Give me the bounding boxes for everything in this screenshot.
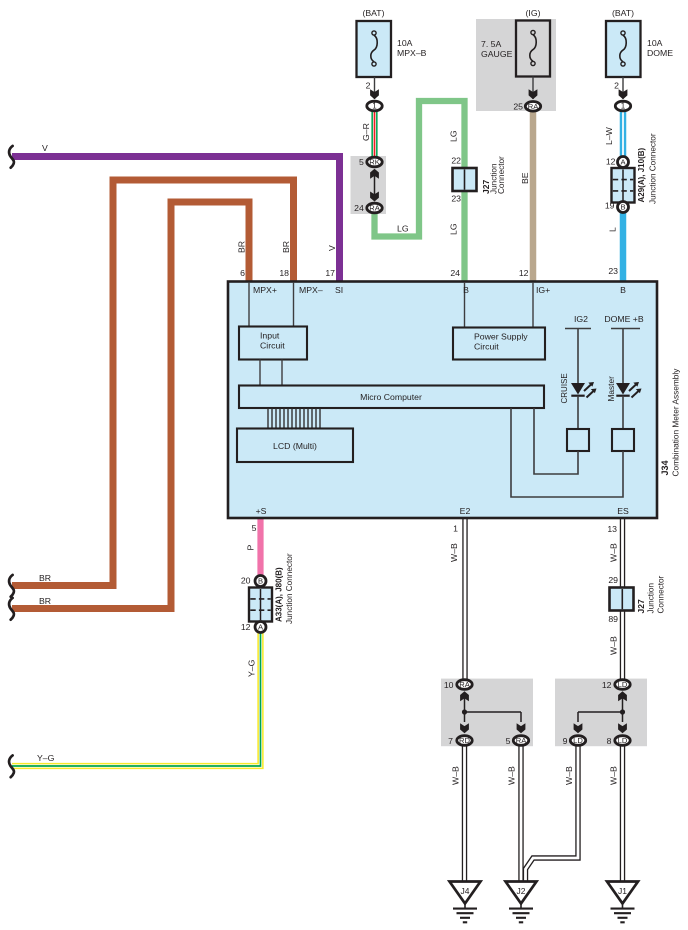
pin 17 meter <box>325 268 335 278</box>
label V at break <box>42 143 48 153</box>
pin 12 LD <box>602 680 612 690</box>
label LG horizontal <box>397 224 409 234</box>
label J34 rotated <box>660 460 670 475</box>
pin 12 A29 <box>606 157 616 167</box>
wire G-R striped from fuse oval 1 to RK <box>371 109 377 158</box>
junction dot left block <box>462 709 467 714</box>
svg-text:Power Supply: Power Supply <box>474 332 528 342</box>
label B (pin24) <box>463 285 469 295</box>
wire P pink from pin 5 +S to B of A33 <box>257 519 263 577</box>
svg-text:RD: RD <box>459 736 470 745</box>
break symbol V wire <box>9 146 14 168</box>
arrow down to RA 5 <box>517 723 526 733</box>
svg-text:LD: LD <box>618 680 628 689</box>
label CRUISE <box>560 373 569 403</box>
pin 20 A33 <box>241 576 251 586</box>
svg-text:17: 17 <box>325 268 335 278</box>
svg-text:RK: RK <box>369 158 380 167</box>
svg-text:RA: RA <box>369 204 380 213</box>
svg-text:P: P <box>246 545 256 551</box>
svg-text:RA: RA <box>528 102 539 111</box>
svg-text:A29(A), J10(B): A29(A), J10(B) <box>637 147 646 202</box>
wire V purple from break to pin 17 <box>12 157 340 282</box>
pin 29 J27 <box>608 575 618 585</box>
combination meter assembly J34 box <box>228 282 657 519</box>
pin 5 RA <box>506 736 511 746</box>
svg-text:5: 5 <box>506 736 511 746</box>
svg-text:W–B: W–B <box>507 766 517 785</box>
svg-text:MPX–B: MPX–B <box>397 48 427 58</box>
pin 22 J27 <box>451 156 461 166</box>
junction connector A33 box <box>249 588 272 622</box>
pin 89 J27 <box>608 614 618 624</box>
net IG2 label and bar <box>565 314 591 329</box>
svg-text:13: 13 <box>607 524 617 534</box>
svg-text:IG+: IG+ <box>536 285 550 295</box>
relay oval LD 12 <box>615 680 630 690</box>
LED master indicator <box>616 382 642 398</box>
svg-text:J1: J1 <box>618 886 627 896</box>
label (IG) <box>526 8 541 18</box>
relay oval RA 10 <box>457 680 472 690</box>
wire W-B from RA 5 to ground J2 <box>518 746 523 882</box>
svg-text:J4: J4 <box>461 886 470 896</box>
svg-text:DOME: DOME <box>647 48 673 58</box>
svg-text:J2: J2 <box>517 886 526 896</box>
label A29(A), J10(B) junction connector rotated <box>637 133 658 204</box>
ground J1 <box>607 882 638 923</box>
pin 10 RA <box>444 680 454 690</box>
label Master <box>606 376 616 402</box>
fuse 10A DOME box <box>606 21 641 77</box>
wire L from B to pin 23 <box>620 211 627 281</box>
svg-text:(BAT): (BAT) <box>362 8 384 18</box>
break symbol Y-G <box>9 755 14 777</box>
svg-text:1: 1 <box>372 102 377 111</box>
svg-text:1: 1 <box>453 524 458 534</box>
terminal circle B (A33) <box>255 576 266 587</box>
pin 8 LD <box>607 736 612 746</box>
svg-text:8: 8 <box>607 736 612 746</box>
wire BR inner from break to pin 6 <box>12 202 249 609</box>
label J27 junction connector rotated <box>481 156 506 194</box>
label W-B below LD8 <box>609 766 619 785</box>
relay oval LD 9 <box>570 736 585 746</box>
connector oval 1 right <box>615 101 630 111</box>
arrow into oval 1 left <box>370 89 379 99</box>
svg-text:LG: LG <box>449 130 459 142</box>
svg-text:W–B: W–B <box>609 766 619 785</box>
svg-text:B: B <box>258 577 263 586</box>
svg-text:25: 25 <box>513 102 523 112</box>
label L rotated <box>608 227 618 232</box>
line fuse MPX-B to oval <box>374 77 376 99</box>
pin 12 A33 <box>241 622 251 632</box>
pin 6 meter <box>240 268 245 278</box>
label W-B below RD <box>451 766 461 785</box>
label BR rotated pin 18 <box>281 241 291 253</box>
svg-text:Circuit: Circuit <box>474 342 499 352</box>
svg-text:BE: BE <box>520 172 530 184</box>
relay oval LD 8 <box>615 736 630 746</box>
fuse 10A MPX-B box <box>357 21 392 77</box>
svg-text:LG: LG <box>449 223 459 235</box>
pin 13 ES <box>607 524 617 534</box>
svg-text:L–W: L–W <box>604 126 614 145</box>
svg-text:W–B: W–B <box>449 543 459 562</box>
input circuit box <box>239 327 307 360</box>
label ES <box>617 506 629 516</box>
svg-text:24: 24 <box>450 268 460 278</box>
line LED master to resistor box 2 <box>622 396 624 429</box>
resistor box master <box>612 429 634 451</box>
svg-text:MPX+: MPX+ <box>253 285 277 295</box>
svg-text:10A: 10A <box>647 38 663 48</box>
relay block gray box lower-right (LD/LD/LD) <box>555 679 647 747</box>
svg-text:W–B: W–B <box>609 636 619 655</box>
relay oval RA 25 <box>525 102 540 112</box>
line fuse GAUGE to RA <box>532 77 534 100</box>
svg-text:ES: ES <box>617 506 629 516</box>
svg-text:LD: LD <box>618 736 628 745</box>
label V rotated pin 17 <box>327 245 337 251</box>
svg-text:W–B: W–B <box>609 543 619 562</box>
svg-text:2: 2 <box>614 81 619 91</box>
junction connector A29 box <box>612 168 635 203</box>
svg-text:IG2: IG2 <box>574 314 588 324</box>
svg-text:BR: BR <box>237 241 247 253</box>
break symbol BR outer <box>9 575 14 597</box>
label LG rotated below 23 <box>449 223 459 235</box>
line across right block <box>578 712 623 722</box>
label G-R rotated <box>361 123 371 141</box>
pin 24 meter <box>450 268 460 278</box>
label J27 junction connector rotated (lower) <box>636 575 666 613</box>
svg-text:V: V <box>327 245 337 251</box>
svg-text:10A: 10A <box>397 38 413 48</box>
svg-text:(BAT): (BAT) <box>612 8 634 18</box>
relay block gray box lower-left (RA/RD/RA) <box>441 679 533 747</box>
label LG rotated above 22 <box>449 130 459 142</box>
svg-text:1: 1 <box>621 102 626 111</box>
svg-text:29: 29 <box>608 575 618 585</box>
label IG+ <box>536 285 550 295</box>
wire L-W striped from fuse oval 1 to A <box>620 109 627 158</box>
line LED cruise to resistor box 1 <box>577 396 579 429</box>
svg-text:BR: BR <box>39 573 51 583</box>
svg-text:BR: BR <box>39 596 51 606</box>
label BE rotated <box>520 172 530 184</box>
svg-text:SI: SI <box>335 285 343 295</box>
wire W-B from LD 8 to ground J1 <box>620 746 625 882</box>
svg-text:10: 10 <box>444 680 454 690</box>
svg-text:BR: BR <box>281 241 291 253</box>
fuse 7.5A GAUGE box <box>516 21 550 77</box>
svg-text:Circuit: Circuit <box>260 341 285 351</box>
LED cruise indicator <box>571 382 597 398</box>
line micro computer to box2 net <box>511 408 623 497</box>
svg-text:Junction Connector: Junction Connector <box>649 133 658 204</box>
svg-text:Junction: Junction <box>647 583 656 614</box>
line fuse DOME to oval <box>622 77 624 99</box>
svg-text:B: B <box>463 285 469 295</box>
wire Y-G striped from A of A33 to break <box>12 631 261 766</box>
svg-text:CRUISE: CRUISE <box>560 373 569 403</box>
label E2 <box>460 506 471 516</box>
label A33(A), J80(B) junction connector rotated <box>275 553 295 624</box>
internal line pin 12 to power supply circuit <box>532 282 534 328</box>
svg-text:G–R: G–R <box>361 123 371 141</box>
label MPX- <box>299 285 323 295</box>
svg-text:5: 5 <box>252 523 257 533</box>
break symbol BR inner <box>9 598 14 620</box>
resistor box cruise <box>567 429 589 451</box>
svg-text:J27: J27 <box>636 599 646 613</box>
label BR at upper break <box>39 573 51 583</box>
wire W-B from pin 1 E2 down to relay block <box>462 519 467 679</box>
label 7.5A GAUGE <box>481 39 513 59</box>
junction connector J27 box (LG) <box>453 168 477 191</box>
svg-text:RA: RA <box>516 736 527 745</box>
arrow down to RD 7 <box>460 723 469 733</box>
svg-text:B: B <box>620 285 626 295</box>
label MPX+ <box>253 285 277 295</box>
label BR rotated pin 6 <box>237 241 247 253</box>
pin 9 LD <box>563 736 568 746</box>
svg-text:Y–G: Y–G <box>37 753 55 763</box>
micro computer box <box>239 386 544 409</box>
junction dot right block <box>620 709 625 714</box>
svg-text:20: 20 <box>241 576 251 586</box>
svg-text:9: 9 <box>563 736 568 746</box>
svg-text:12: 12 <box>606 157 616 167</box>
svg-text:(IG): (IG) <box>526 8 541 18</box>
pin 5 RK <box>359 157 364 167</box>
power supply circuit box <box>453 328 545 360</box>
pin 2 fuse MPX-B <box>366 81 371 91</box>
wire W-B from pin 13 ES through J27 to relay block <box>620 519 625 679</box>
svg-text:89: 89 <box>608 614 618 624</box>
svg-text:23: 23 <box>451 194 461 204</box>
svg-text:+S: +S <box>256 506 267 516</box>
label 10A DOME <box>647 38 673 58</box>
svg-text:LG: LG <box>397 224 409 234</box>
arrow up from LD 12 <box>618 691 627 712</box>
svg-text:18: 18 <box>279 268 289 278</box>
pin 24 RA <box>354 203 364 213</box>
terminal circle B (A29) <box>618 202 629 213</box>
pin 12 meter <box>519 268 529 278</box>
connector oval 1 left <box>367 101 382 111</box>
label W-B below LD9 <box>564 766 574 785</box>
terminal circle A (A29) <box>618 157 629 168</box>
label W-B below RA5 <box>507 766 517 785</box>
terminal circle A (A33) <box>255 622 266 633</box>
svg-text:V: V <box>42 143 48 153</box>
svg-text:Master: Master <box>606 376 616 402</box>
wire W-B from RD 7 to ground J4 <box>462 746 467 882</box>
ground J4 <box>450 882 481 923</box>
label P rotated <box>246 545 256 551</box>
arrow into oval 1 right <box>619 89 628 99</box>
svg-text:Combination Meter Assembly: Combination Meter Assembly <box>671 368 681 477</box>
label +S <box>256 506 267 516</box>
arrow into RA 25 <box>529 89 538 99</box>
ground J2 <box>506 882 537 923</box>
label L-W rotated <box>604 126 614 145</box>
pin 25 RA <box>513 102 523 112</box>
internal line pin 6 to input circuit <box>248 282 250 327</box>
svg-text:Connector: Connector <box>657 575 666 613</box>
svg-text:6: 6 <box>240 268 245 278</box>
junction block gray box around GAUGE fuse <box>476 19 556 111</box>
net DOME +B label and bar <box>604 314 644 329</box>
pin 19 A29 <box>605 201 615 211</box>
lines input circuit to micro computer <box>260 360 282 386</box>
wire BR outer from break to pin 18 <box>12 180 294 586</box>
relay oval RK <box>367 157 382 167</box>
label W-B rotated below J27 <box>609 636 619 655</box>
pin 1 E2 <box>453 524 458 534</box>
wire BE from RA 25 to pin 12 <box>530 109 537 281</box>
label 10A MPX-B <box>397 38 427 58</box>
label (BAT) left <box>362 8 384 18</box>
label W-B rotated ES <box>609 543 619 562</box>
svg-text:W–B: W–B <box>451 766 461 785</box>
svg-text:7: 7 <box>448 736 453 746</box>
label W-B rotated E2 <box>449 543 459 562</box>
svg-text:24: 24 <box>354 203 364 213</box>
svg-text:Micro Computer: Micro Computer <box>360 392 422 402</box>
arrow down to LD 8 <box>618 723 627 733</box>
pin 2 fuse DOME <box>614 81 619 91</box>
line micro computer to box1 net <box>534 408 578 474</box>
svg-text:MPX–: MPX– <box>299 285 323 295</box>
relay oval RA 5 <box>513 736 528 746</box>
junction connector J27 box (W-B) <box>610 588 634 611</box>
svg-text:L: L <box>608 227 618 232</box>
label Combination Meter Assembly rotated <box>671 368 681 477</box>
relay oval RD 7 <box>457 736 472 746</box>
double arrow RK to RA <box>370 169 379 202</box>
relay oval RA <box>367 203 382 213</box>
svg-text:12: 12 <box>241 622 251 632</box>
svg-text:LCD (Multi): LCD (Multi) <box>273 441 317 451</box>
svg-text:J34: J34 <box>660 460 670 475</box>
svg-text:Junction Connector: Junction Connector <box>285 553 294 624</box>
svg-text:19: 19 <box>605 201 615 211</box>
pin 18 meter <box>279 268 289 278</box>
svg-text:DOME +B: DOME +B <box>604 314 644 324</box>
pin 5 +S <box>252 523 257 533</box>
svg-text:RA: RA <box>459 680 470 689</box>
svg-text:12: 12 <box>602 680 612 690</box>
wire LG from RA 24 via loop through J27 to pin 24 <box>375 101 465 281</box>
bus comb between micro computer and LCD <box>268 409 320 429</box>
svg-text:7. 5A: 7. 5A <box>481 39 501 49</box>
arrow down to LD 9 <box>574 723 583 733</box>
pin 23 J27 <box>451 194 461 204</box>
junction block gray box around RK/RA relays <box>351 156 387 214</box>
svg-text:5: 5 <box>359 157 364 167</box>
line IG2 to LED cruise <box>577 329 579 384</box>
svg-text:12: 12 <box>519 268 529 278</box>
label BR at lower break <box>39 596 51 606</box>
svg-text:Y–G: Y–G <box>247 659 257 677</box>
arrow up from RA 10 <box>460 691 469 712</box>
svg-text:Connector: Connector <box>497 156 506 194</box>
svg-text:22: 22 <box>451 156 461 166</box>
pin 7 RD <box>448 736 453 746</box>
wire W-B from LD 9 joining ground J2 <box>526 746 579 882</box>
svg-text:GAUGE: GAUGE <box>481 49 513 59</box>
line across left block <box>465 712 522 722</box>
internal line pin 18 to input circuit <box>293 282 295 327</box>
svg-text:2: 2 <box>366 81 371 91</box>
svg-text:B: B <box>620 203 625 212</box>
pin 23 meter <box>608 266 618 276</box>
label B (pin23) <box>620 285 626 295</box>
svg-text:W–B: W–B <box>564 766 574 785</box>
internal line pin 24 to power supply circuit <box>464 282 466 328</box>
label SI <box>335 285 343 295</box>
svg-text:A33(A), J80(B): A33(A), J80(B) <box>275 567 284 622</box>
svg-text:23: 23 <box>608 266 618 276</box>
svg-text:LD: LD <box>573 736 583 745</box>
label Y-G at break <box>37 753 55 763</box>
line DOME +B to LED master <box>622 329 624 384</box>
LCD (Multi) box <box>237 429 353 463</box>
label (BAT) right <box>612 8 634 18</box>
svg-text:E2: E2 <box>460 506 471 516</box>
label Y-G rotated <box>247 659 257 677</box>
svg-text:Input: Input <box>260 331 280 341</box>
